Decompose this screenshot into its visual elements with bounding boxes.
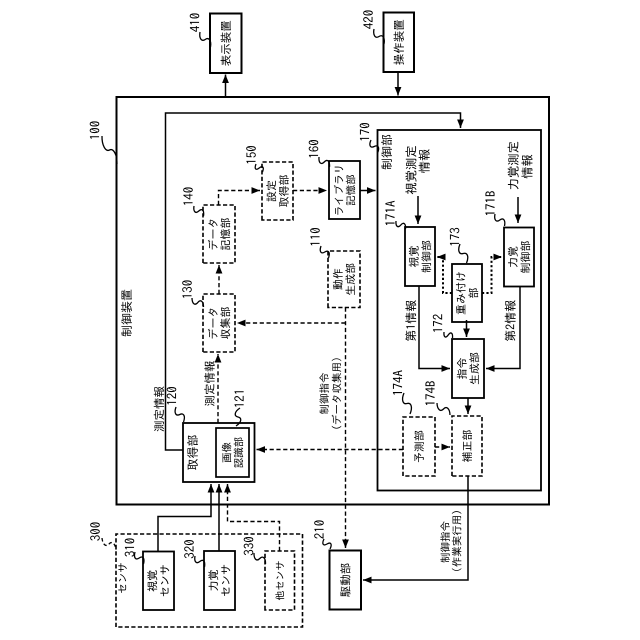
label 171B bbox=[485, 191, 494, 215]
block 171B 力覚制御部 (force control unit) bbox=[504, 228, 534, 287]
leader squiggle 170 bbox=[370, 140, 379, 153]
block 210 駆動部 (drive unit) bbox=[330, 551, 362, 610]
title 制御部 bbox=[381, 135, 392, 170]
block 420 操作装置 (operating device) bbox=[384, 13, 415, 73]
leader squiggle 171A bbox=[396, 221, 406, 229]
label 174B bbox=[425, 381, 434, 405]
wire: 予測部 to 補正部 (dashed) bbox=[435, 446, 450, 448]
leader squiggle 160 bbox=[319, 157, 330, 167]
leader squiggle 172 bbox=[444, 332, 453, 338]
leader squiggle 174B bbox=[437, 403, 450, 415]
label 210 bbox=[314, 520, 324, 538]
block 330 他センサ (other sensors, dashed) bbox=[265, 551, 295, 610]
label 172 bbox=[433, 314, 442, 331]
wire: 力覚測定情報 into 力覚制御部 bbox=[517, 197, 519, 223]
block 121 画像認識部 (image recognition unit) bbox=[216, 428, 249, 477]
leader squiggle 310 bbox=[135, 552, 144, 564]
label 第1情報 bbox=[405, 300, 416, 341]
box 170 制御部 (control section) frame bbox=[378, 130, 542, 491]
label 410 bbox=[190, 13, 200, 31]
label 320 bbox=[184, 540, 194, 558]
label 140 bbox=[183, 187, 193, 204]
wire: branch to データ収集部 (dashed) bbox=[237, 322, 346, 324]
label 310 bbox=[125, 538, 135, 556]
label 120 bbox=[167, 387, 177, 404]
leader squiggle 150 bbox=[255, 164, 263, 172]
leader squiggle 410 bbox=[200, 32, 211, 47]
block 130 データ収集部 (data collection unit, dashed) bbox=[203, 294, 235, 352]
block 310 視覚センサ (vision sensor) bbox=[143, 552, 174, 611]
wire: 動作生成部 to 駆動部 制御指令 (dashed) bbox=[345, 308, 347, 549]
label 130 bbox=[182, 280, 192, 297]
leader squiggle 140 bbox=[194, 206, 204, 216]
block 410 表示装置 (display device) bbox=[210, 14, 242, 74]
label 160 bbox=[309, 140, 319, 157]
wire: 設定取得部 to ライブラリ記憶部 (dashed) bbox=[293, 190, 327, 192]
wire: 補正部 to 駆動部 制御指令 bbox=[363, 476, 468, 580]
leader squiggle 174A bbox=[403, 393, 412, 414]
block 173 重み付け部 (weighting unit) bbox=[452, 264, 482, 322]
wire: 予測部 to 取得部 (dashed) bbox=[257, 449, 404, 451]
wire: ライブラリ記憶部 to 制御部 170 bbox=[360, 190, 376, 192]
label 制御指令（データ収集用） line2 bbox=[332, 358, 342, 428]
label 100 bbox=[90, 121, 100, 138]
label 150 bbox=[246, 146, 256, 163]
label 制御指令（データ収集用） line1 bbox=[319, 373, 328, 414]
block 320 力覚センサ (force sensor) bbox=[204, 551, 235, 610]
label 174A bbox=[393, 370, 402, 394]
block 174A 予測部 (prediction unit, dashed) bbox=[403, 417, 435, 476]
leader squiggle 121 bbox=[235, 408, 241, 426]
leader squiggle 320 bbox=[195, 556, 205, 567]
label 力覚測定情報 line1 bbox=[508, 142, 519, 190]
block 160 ライブラリ記憶部 (library storage unit) bbox=[329, 161, 360, 219]
label 測定情報 top bbox=[154, 386, 164, 431]
leader squiggle 120 bbox=[175, 407, 184, 422]
block 172 指令生成部 (command generation unit) bbox=[452, 339, 484, 398]
label 視覚測定情報 line1 bbox=[405, 146, 416, 194]
wire: 視覚制御部 to 指令生成部 第1情報 bbox=[419, 286, 450, 369]
label 測定情報 on wire bbox=[204, 361, 214, 406]
wire: 重み付け部 to 指令生成部 bbox=[466, 320, 468, 337]
wire: controller 100 to display 410 (arrow right) bbox=[225, 75, 227, 98]
wire: 力覚制御部 to 指令生成部 第2情報 bbox=[486, 286, 520, 369]
leader squiggle 173 bbox=[459, 244, 468, 263]
label 300 bbox=[90, 522, 100, 540]
wire: 取得部 測定情報 feedback to 制御部 170 bbox=[166, 113, 461, 450]
block 150 設定取得部 (setting acquisition unit, dashed) bbox=[262, 162, 293, 220]
block 171A 視覚制御部 (vision control unit) bbox=[405, 227, 435, 286]
block 110 動作生成部 (motion generation unit, dashed) bbox=[328, 251, 360, 308]
label 力覚測定情報 line2 bbox=[521, 155, 532, 179]
label 330 bbox=[244, 537, 254, 555]
title センサ bbox=[118, 563, 127, 593]
title 制御装置 bbox=[121, 290, 132, 337]
wire: データ収集部 to データ記憶部 (dashed) bbox=[218, 265, 220, 294]
label 171A bbox=[385, 201, 394, 225]
leader squiggle 210 bbox=[323, 539, 331, 549]
wire: 視覚測定情報 into 視覚制御部 bbox=[417, 196, 419, 224]
block 174B 補正部 (correction unit, dashed) bbox=[452, 416, 482, 476]
wire: 他センサ to 取得部 (dashed) bbox=[228, 484, 280, 551]
leader squiggle 420 bbox=[374, 29, 385, 44]
label 第2情報 bbox=[505, 300, 516, 341]
box 100 制御装置 (control device) outer frame bbox=[117, 97, 550, 505]
wire: operating device 420 to controller 100 (arrow left) bbox=[397, 72, 399, 96]
label 制御指令（作業実行用） line1 bbox=[440, 521, 449, 562]
wire: 取得部 to データ収集部 測定情報 (dashed) bbox=[217, 354, 219, 423]
leader squiggle 110 bbox=[320, 246, 329, 258]
wire: 重み付け部 to 視覚制御部 (dotted) bbox=[437, 257, 452, 293]
leader squiggle 330 bbox=[254, 553, 266, 564]
label 420 bbox=[363, 10, 373, 28]
label 110 bbox=[310, 228, 320, 245]
label 視覚測定情報 line2 bbox=[419, 149, 430, 173]
label 制御指令（作業実行用） line2 bbox=[452, 511, 462, 571]
wire: 力覚センサ to 取得部 bbox=[218, 484, 220, 551]
wire: 指令生成部 to 補正部 bbox=[467, 398, 469, 414]
label 173 bbox=[450, 228, 460, 245]
label 121 bbox=[234, 391, 243, 406]
block 140 データ記憶部 (data storage unit, dashed) bbox=[203, 205, 235, 263]
leader squiggle 130 bbox=[192, 298, 204, 307]
box 300 センサ sensor group (dashed) bbox=[116, 534, 303, 627]
leader squiggle 300 (dashed) bbox=[102, 538, 116, 550]
leader squiggle 171B bbox=[495, 214, 505, 226]
label 170 bbox=[360, 123, 370, 140]
block 120 取得部 (acquisition unit) bbox=[183, 423, 255, 482]
wire: 重み付け部 to 力覚制御部 (dotted) bbox=[482, 257, 502, 293]
leader squiggle 100 bbox=[102, 136, 117, 164]
wire: データ記憶部 to 設定取得部 (dashed) bbox=[219, 191, 261, 206]
wire: 視覚センサ to 取得部 bbox=[158, 484, 211, 552]
